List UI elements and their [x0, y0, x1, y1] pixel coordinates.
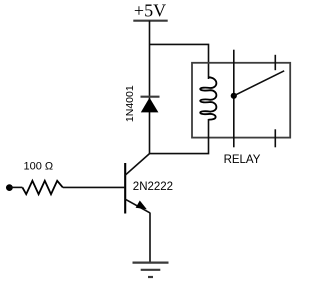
diode D1 triangle (anode, pointing up): [141, 98, 159, 113]
relay contact pin top: [274, 55, 276, 70]
wire: top run from rail to relay coil top: [150, 44, 209, 79]
input terminal dot: [6, 184, 13, 191]
relay switch arm: [234, 71, 284, 96]
transistor Q1 emitter arrow: [136, 201, 147, 210]
transistor Q1 base bar: [124, 163, 126, 214]
svg-text:+5V: +5V: [134, 0, 166, 20]
svg-text:2N2222: 2N2222: [133, 181, 173, 193]
wire: +5V rail down to collector junction: [149, 21, 151, 154]
relay coil L1: [200, 77, 216, 119]
wire: coil bottom to collector junction: [150, 119, 209, 154]
wire: emitter down to ground: [149, 213, 151, 263]
wire: terminal to resistor: [9, 186, 22, 188]
ground symbol: [133, 262, 169, 264]
resistor R1 zigzag: [22, 181, 62, 194]
relay box: [192, 63, 290, 138]
relay common pin (middle vertical): [233, 50, 235, 148]
transistor Q1 emitter lead: [125, 199, 150, 213]
diode D1 cathode bar: [141, 96, 160, 98]
svg-text:100 Ω: 100 Ω: [23, 161, 53, 173]
wire: resistor to transistor base: [63, 186, 125, 188]
svg-text:RELAY: RELAY: [224, 154, 261, 166]
relay contact pin bottom: [274, 129, 276, 147]
transistor Q1 collector lead: [125, 154, 149, 176]
power rail bar: [133, 20, 167, 22]
svg-text:1N4001: 1N4001: [124, 85, 136, 122]
relay pole junction dot: [231, 93, 237, 99]
